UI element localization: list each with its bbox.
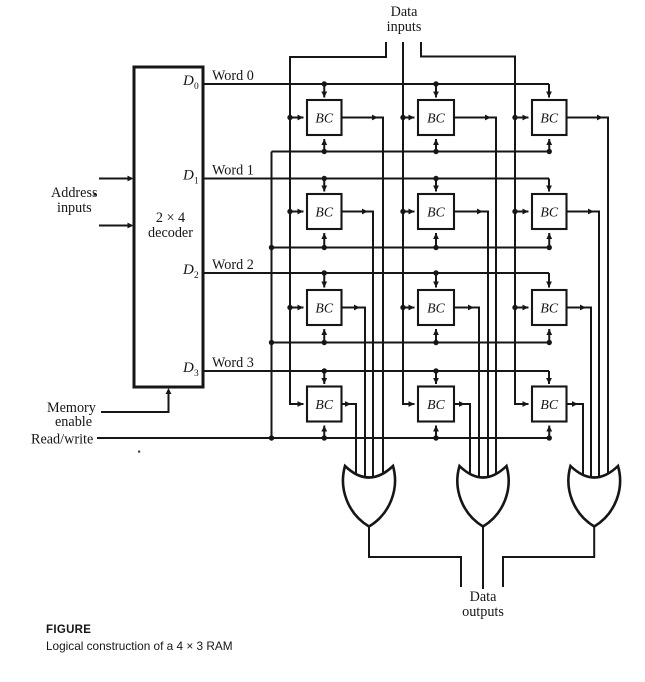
svg-text:inputs: inputs [387,19,422,35]
svg-text:Word 0: Word 0 [212,68,254,84]
svg-text:2 × 4: 2 × 4 [156,210,185,226]
svg-text:inputs: inputs [57,200,92,216]
svg-text:BC: BC [315,397,333,412]
svg-text:BC: BC [540,397,558,412]
svg-text:BC: BC [540,111,558,126]
binary cell BC row3 col1 [418,368,470,480]
or-gate G2 [457,466,508,527]
word line 3 wire [203,370,549,372]
decoder output label D2 [182,262,199,281]
svg-text:D: D [182,360,194,376]
data inputs label [387,4,422,35]
svg-text:Word 1: Word 1 [212,163,254,179]
word line 1 wire [203,178,549,180]
svg-text:Read/write: Read/write [31,432,93,448]
svg-text:BC: BC [427,111,445,126]
binary cell BC row3 col0 [307,368,356,480]
address input wire A1 with arrow [99,176,134,182]
binary cell BC row0 col1 [400,81,496,480]
row 1 read/write wire [272,247,550,249]
svg-text:D: D [182,262,194,278]
figure caption [46,624,233,653]
word line 0 wire [203,83,549,85]
svg-text:Word 2: Word 2 [212,257,254,273]
svg-text:Address: Address [51,185,98,201]
row 2 read/write wire [272,342,550,344]
svg-text:Word 3: Word 3 [212,355,254,371]
svg-text:Data: Data [470,589,497,605]
svg-text:1: 1 [194,177,199,187]
speck [138,451,140,453]
read/write label [31,432,93,448]
binary cell BC row3 col2 [532,371,583,480]
svg-text:BC: BC [427,301,445,316]
binary cell BC row2 col2 [512,273,591,480]
svg-text:BC: BC [315,111,333,126]
address input wire A0 with arrow [99,223,134,229]
svg-text:FIGURE: FIGURE [46,624,91,636]
or-gate G3 output wire [503,527,594,588]
or-gate G1 [343,466,395,527]
decoder output label D0 [182,73,199,92]
svg-text:2: 2 [194,271,199,281]
svg-text:3: 3 [194,369,199,379]
data input column 2 wire [403,42,415,407]
svg-text:0: 0 [194,82,199,92]
data input column 1 wire [290,42,386,407]
svg-text:BC: BC [540,301,558,316]
svg-text:BC: BC [427,397,445,412]
svg-text:Data: Data [391,4,418,20]
binary cell BC row1 col1 [400,176,488,480]
svg-text:BC: BC [315,301,333,316]
svg-text:enable: enable [55,414,92,430]
svg-text:outputs: outputs [462,604,504,620]
data outputs label [462,589,504,620]
or-gate G2 output wire [482,527,484,590]
binary cell BC row2 col1 [400,270,479,480]
word 3 label [212,355,254,371]
address input label [51,185,98,216]
word 0 label [212,68,254,84]
word line 2 wire [203,272,549,274]
word 1 label [212,163,254,179]
svg-text:decoder: decoder [148,225,193,241]
binary cell BC row1 col0 [287,176,373,480]
svg-text:BC: BC [540,205,558,220]
memory enable label [47,400,97,430]
svg-text:D: D [182,73,194,89]
read/write distribution vertical wire [269,152,274,441]
binary cell BC row2 col0 [287,270,365,480]
svg-text:BC: BC [315,205,333,220]
memory enable wire with arrow into decoder [101,388,171,412]
or-gate G3 [568,466,620,527]
decoder output label D1 [182,168,199,187]
binary cell BC row0 col2 [512,84,608,480]
binary cell BC row1 col2 [512,179,599,481]
row 0 read/write wire [272,151,550,153]
svg-text:BC: BC [427,205,445,220]
word 2 label [212,257,254,273]
decoder output label D3 [182,360,199,379]
svg-text:D: D [182,168,194,184]
read/write main wire [97,437,549,439]
or-gate G1 output wire [369,527,461,588]
svg-text:Logical construction of a 4 ×: Logical construction of a 4 × 3 RAM [46,639,233,653]
data input column 3 wire [421,42,529,407]
binary cell BC row0 col0 [287,81,383,480]
2x4 decoder block [134,67,203,387]
